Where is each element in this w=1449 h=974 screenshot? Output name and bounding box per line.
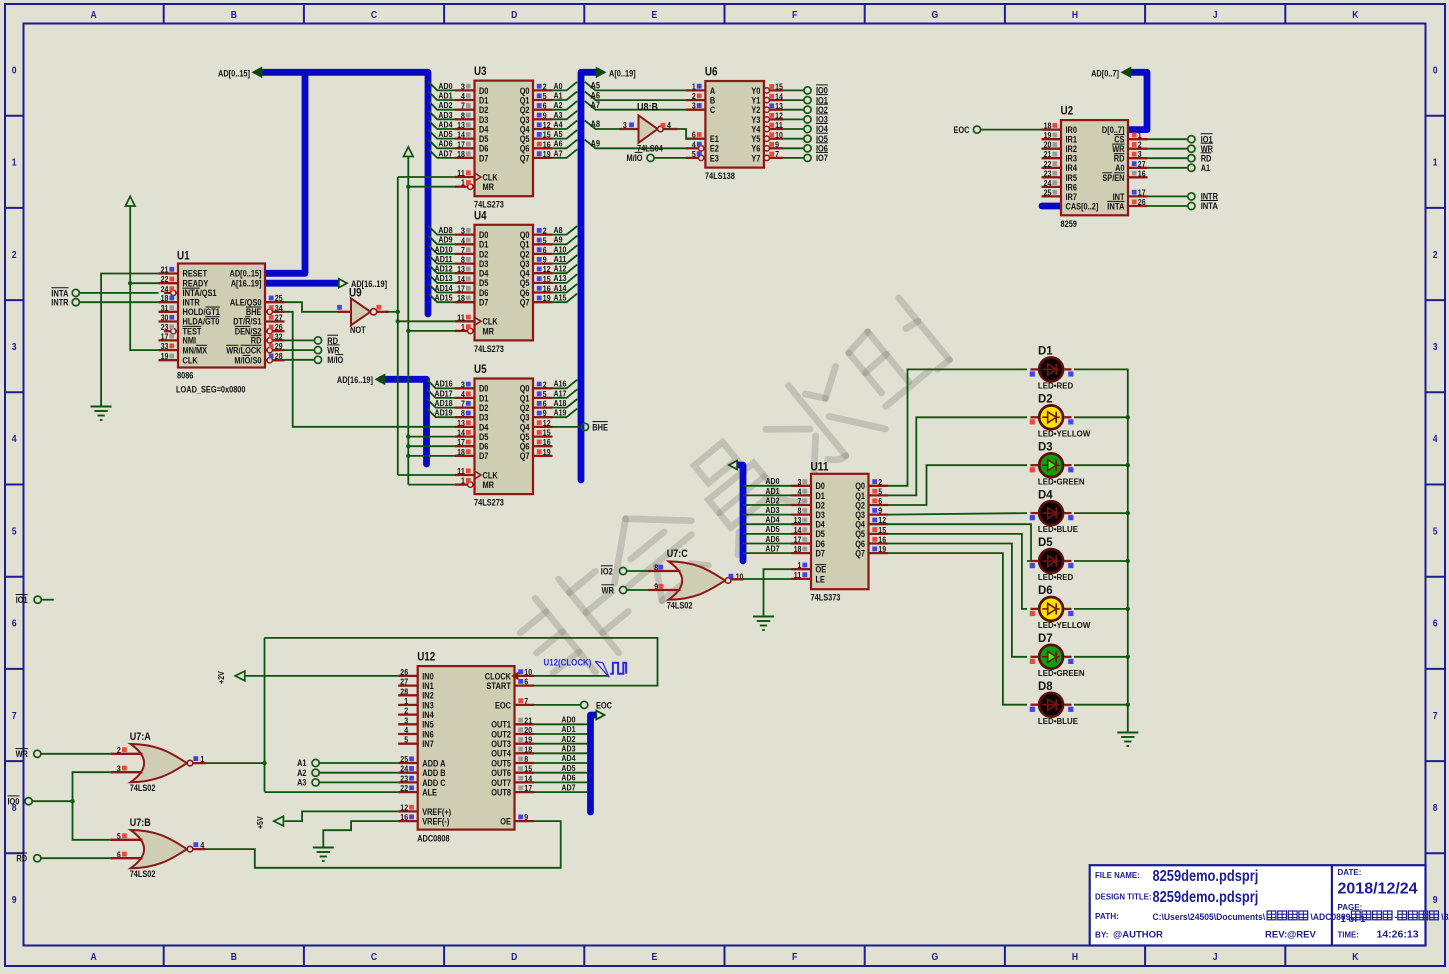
svg-text:D1: D1 — [479, 96, 488, 106]
svg-text:15: 15 — [775, 82, 783, 92]
svg-text:D3: D3 — [479, 259, 488, 269]
svg-text:AD3: AD3 — [438, 110, 452, 120]
svg-text:K: K — [1352, 951, 1359, 963]
svg-text:IO: IO — [243, 355, 251, 365]
svg-text:D7: D7 — [1038, 631, 1053, 645]
svg-text:AD2: AD2 — [561, 734, 575, 744]
svg-text:A14: A14 — [554, 283, 567, 293]
svg-text:RD: RD — [251, 336, 262, 346]
svg-text:14: 14 — [457, 428, 465, 438]
svg-text:PATH:: PATH: — [1095, 911, 1119, 921]
svg-text:13: 13 — [794, 515, 802, 525]
svg-text:D3: D3 — [816, 510, 825, 520]
wire A8 — [585, 119, 639, 129]
svg-text:3: 3 — [1433, 341, 1438, 353]
svg-text:74LS273: 74LS273 — [474, 344, 504, 354]
svg-text:AD11: AD11 — [435, 254, 453, 264]
svg-text:4: 4 — [461, 235, 465, 245]
svg-text:3: 3 — [461, 379, 465, 389]
svg-text:A[0..19]: A[0..19] — [609, 69, 636, 79]
svg-text:BHE: BHE — [246, 307, 262, 317]
svg-text:IN3: IN3 — [422, 700, 434, 710]
svg-text:IR0: IR0 — [1066, 125, 1078, 135]
svg-text:Q1: Q1 — [520, 393, 530, 403]
svg-text:D6: D6 — [479, 442, 488, 452]
svg-text:18: 18 — [457, 293, 465, 303]
wire IO0 net — [70, 772, 110, 840]
svg-text:5: 5 — [12, 525, 17, 537]
svg-text:G: G — [931, 9, 938, 21]
svg-text:4: 4 — [12, 433, 17, 445]
svg-text:IO0: IO0 — [8, 797, 20, 807]
svg-text:Y3: Y3 — [751, 115, 760, 125]
svg-text:IN4: IN4 — [422, 710, 434, 720]
svg-text:DESIGN TITLE:: DESIGN TITLE: — [1095, 892, 1152, 902]
bus U12 AD bus — [591, 711, 605, 812]
svg-text:OUT8: OUT8 — [491, 788, 511, 798]
svg-text:/QS1: /QS1 — [200, 288, 217, 298]
svg-text:MN/: MN/ — [183, 345, 197, 355]
svg-text:4: 4 — [461, 389, 465, 399]
svg-text:D1: D1 — [816, 491, 825, 501]
svg-text:RD: RD — [1201, 153, 1212, 163]
svg-text:2: 2 — [12, 249, 17, 261]
svg-text:GT1: GT1 — [206, 307, 220, 317]
svg-text:AD6: AD6 — [438, 139, 452, 149]
svg-text:LED•BLUE: LED•BLUE — [1038, 716, 1078, 726]
wire LED common — [1074, 369, 1130, 732]
svg-text:CLK: CLK — [483, 317, 499, 327]
svg-text:J: J — [1213, 9, 1218, 21]
svg-text:\82: \82 — [1441, 912, 1449, 923]
svg-text:D4: D4 — [479, 269, 488, 279]
svg-text:74LS273: 74LS273 — [474, 498, 504, 508]
svg-text:23: 23 — [1044, 168, 1052, 178]
wires U11 data inputs — [743, 476, 792, 553]
NOR gate U7:A 74LS02 — [117, 731, 205, 793]
latch U3 74LS273 — [455, 64, 553, 210]
svg-text:Q4: Q4 — [520, 124, 530, 134]
svg-text:1: 1 — [1433, 157, 1438, 169]
svg-text:Q6: Q6 — [855, 539, 865, 549]
wire Q0-D1 — [888, 369, 1027, 485]
svg-text:OUT7: OUT7 — [491, 778, 511, 788]
svg-text:21: 21 — [524, 715, 532, 725]
svg-text:25: 25 — [275, 293, 283, 303]
svg-text:LOCK: LOCK — [241, 345, 262, 355]
svg-text:AD18: AD18 — [435, 398, 453, 408]
svg-text:19: 19 — [524, 735, 532, 745]
svg-text:3: 3 — [692, 101, 696, 111]
terminal INTR (U1) — [51, 298, 158, 308]
svg-text:74LS138: 74LS138 — [705, 171, 735, 181]
svg-text:D2: D2 — [1038, 392, 1053, 406]
bus A[0..19] — [581, 67, 636, 480]
svg-text:D5: D5 — [479, 432, 488, 442]
svg-text:M/IO: M/IO — [627, 153, 643, 163]
svg-text:1: 1 — [798, 560, 802, 570]
svg-text:Q4: Q4 — [520, 269, 530, 279]
svg-text:RD: RD — [327, 336, 338, 346]
svg-text:20: 20 — [524, 725, 532, 735]
svg-text:INTR: INTR — [183, 297, 201, 307]
svg-text:10: 10 — [775, 130, 783, 140]
svg-text:16: 16 — [543, 139, 551, 149]
svg-text:13: 13 — [775, 101, 783, 111]
svg-text:EN: EN — [1114, 173, 1124, 183]
svg-text:D0: D0 — [479, 230, 488, 240]
svg-text:2: 2 — [543, 81, 547, 91]
svg-text:Q2: Q2 — [520, 105, 530, 115]
CPU U1 8086 — [159, 249, 285, 395]
svg-text:D2: D2 — [479, 105, 488, 115]
svg-text:OUT3: OUT3 — [491, 739, 511, 749]
wire RESET to gnd — [101, 274, 158, 407]
svg-text:MR: MR — [483, 326, 495, 336]
svg-text:READY: READY — [183, 278, 209, 288]
svg-text:B: B — [710, 96, 716, 106]
svg-text:Q3: Q3 — [520, 413, 530, 423]
svg-text:AD1: AD1 — [765, 486, 779, 496]
svg-text:A17: A17 — [554, 388, 567, 398]
svg-text:CLK: CLK — [483, 172, 499, 182]
svg-text:IN5: IN5 — [422, 720, 434, 730]
svg-text:D0: D0 — [479, 86, 488, 96]
svg-text:A2: A2 — [297, 768, 306, 778]
svg-text:U7:B: U7:B — [130, 817, 151, 829]
svg-text:U3: U3 — [474, 64, 487, 78]
svg-text:19: 19 — [543, 149, 551, 159]
svg-text:5: 5 — [692, 149, 696, 159]
svg-text:EOC: EOC — [495, 700, 511, 710]
svg-text:D0: D0 — [479, 384, 488, 394]
svg-text:8: 8 — [461, 255, 465, 265]
svg-text:AD0: AD0 — [438, 81, 452, 91]
svg-text:74LS02: 74LS02 — [130, 869, 156, 879]
svg-text:@AUTHOR: @AUTHOR — [1113, 929, 1163, 940]
svg-text:4: 4 — [461, 91, 465, 101]
svg-text:A: A — [710, 86, 716, 96]
wire U11 OE to ground — [764, 569, 792, 616]
svg-text:IR6: IR6 — [1066, 182, 1078, 192]
svg-text:B: B — [231, 9, 238, 21]
svg-text:7: 7 — [12, 710, 17, 722]
svg-text:11: 11 — [794, 570, 802, 580]
wire Q1-D2 — [888, 417, 1027, 495]
svg-text:12: 12 — [543, 120, 551, 130]
svg-text:21: 21 — [1044, 149, 1052, 159]
svg-text:8: 8 — [1433, 802, 1438, 814]
svg-text:20: 20 — [1044, 140, 1052, 150]
svg-text:LE: LE — [816, 574, 825, 584]
svg-text:INTA: INTA — [1201, 201, 1219, 211]
svg-text:D4: D4 — [479, 422, 488, 432]
svg-text:A7: A7 — [554, 148, 563, 158]
svg-text:IO1: IO1 — [16, 595, 28, 605]
svg-text:6: 6 — [543, 101, 547, 111]
svg-text:VREF(-): VREF(-) — [422, 817, 449, 827]
svg-text:AD17: AD17 — [435, 388, 453, 398]
svg-text:D2: D2 — [479, 249, 488, 259]
svg-text:A18: A18 — [554, 398, 567, 408]
svg-text:AD2: AD2 — [765, 495, 779, 505]
wires U3 data — [429, 81, 578, 159]
terminal EOC (U12) — [534, 700, 612, 710]
svg-text:30: 30 — [161, 313, 169, 323]
power +2V — [216, 671, 245, 684]
svg-text:Y6: Y6 — [751, 144, 760, 154]
latch U11 74LS373 — [792, 459, 889, 602]
svg-text:A2: A2 — [554, 100, 563, 110]
svg-text:3: 3 — [461, 81, 465, 91]
title block — [1090, 865, 1426, 945]
wire Q2-D3 — [888, 465, 1027, 505]
svg-text:U12: U12 — [417, 650, 435, 664]
svg-text:6: 6 — [543, 399, 547, 409]
svg-text:6: 6 — [692, 130, 696, 140]
svg-text:E: E — [652, 951, 658, 963]
svg-text:DT/: DT/ — [233, 317, 245, 327]
svg-text:D5: D5 — [816, 529, 825, 539]
NOR gate U7:B 74LS02 — [117, 817, 205, 879]
svg-text:Q4: Q4 — [855, 520, 865, 530]
svg-text:EOC: EOC — [954, 125, 970, 135]
svg-text:A1: A1 — [1201, 163, 1210, 173]
wire A9 — [585, 139, 688, 149]
LED D3 GREEN — [1030, 439, 1085, 486]
svg-text:WR: WR — [16, 749, 29, 759]
svg-text:D4: D4 — [479, 124, 488, 134]
svg-text:A8: A8 — [554, 225, 563, 235]
svg-text:LED•RED: LED•RED — [1038, 381, 1073, 391]
svg-text:AD8: AD8 — [438, 225, 452, 235]
svg-text:F: F — [792, 951, 798, 963]
svg-text:IO7: IO7 — [816, 153, 828, 163]
svg-text:A15: A15 — [554, 293, 567, 303]
terminal WR (U7:A) — [16, 749, 111, 760]
svg-text:9: 9 — [1433, 894, 1438, 906]
svg-text:11: 11 — [457, 312, 465, 322]
svg-text:D3: D3 — [1038, 439, 1053, 453]
svg-text:D: D — [511, 951, 518, 963]
svg-text:9: 9 — [543, 408, 547, 418]
svg-text:LED•GREEN: LED•GREEN — [1038, 476, 1085, 486]
svg-text:K: K — [1352, 9, 1359, 21]
svg-text:A0: A0 — [1115, 163, 1124, 173]
svg-text:WR: WR — [602, 585, 615, 595]
svg-text:D0: D0 — [816, 481, 825, 491]
svg-text:LED•YELLOW: LED•YELLOW — [1038, 428, 1091, 438]
svg-text:10: 10 — [524, 667, 532, 677]
svg-text:C: C — [371, 951, 378, 963]
svg-text:24: 24 — [400, 764, 408, 774]
svg-text:PAGE:: PAGE: — [1338, 902, 1363, 912]
svg-text:11: 11 — [457, 466, 465, 476]
svg-text:16: 16 — [1138, 168, 1146, 178]
svg-text:A12: A12 — [554, 264, 567, 274]
svg-text:U7:A: U7:A — [130, 731, 151, 743]
svg-text:Q1: Q1 — [520, 96, 530, 106]
svg-text:MR: MR — [483, 182, 495, 192]
svg-text:D6: D6 — [479, 144, 488, 154]
terminals A1 A2 A3 — [297, 758, 398, 787]
svg-text:CS: CS — [1114, 135, 1124, 145]
svg-text:AD5: AD5 — [438, 129, 452, 139]
svg-text:6: 6 — [524, 677, 528, 687]
svg-text:9: 9 — [524, 812, 528, 822]
svg-text:Y0: Y0 — [751, 86, 760, 96]
svg-text:1: 1 — [461, 476, 465, 486]
svg-text:19: 19 — [161, 351, 169, 361]
svg-text:9: 9 — [543, 255, 547, 265]
wire Q4-D5 — [888, 524, 1031, 561]
svg-text:2: 2 — [543, 379, 547, 389]
svg-text:\ADC0809: \ADC0809 — [1311, 912, 1351, 923]
terminal INTA (U1) — [51, 288, 158, 299]
svg-text:U4: U4 — [474, 208, 487, 222]
svg-text:AD7: AD7 — [438, 148, 452, 158]
svg-text:BHE: BHE — [592, 422, 608, 432]
svg-text:CLOCK: CLOCK — [485, 671, 512, 681]
terminal EOC (U2) — [954, 125, 1042, 135]
svg-text:CLK: CLK — [483, 470, 499, 480]
svg-text:IN1: IN1 — [422, 681, 434, 691]
terminal RD (U1) — [285, 335, 339, 346]
svg-text:IR7: IR7 — [1066, 192, 1078, 202]
svg-text:LED•RED: LED•RED — [1038, 572, 1073, 582]
svg-text:AD15: AD15 — [435, 293, 453, 303]
svg-text:16: 16 — [400, 812, 408, 822]
svg-text:IO2: IO2 — [601, 566, 613, 576]
svg-text:5: 5 — [543, 91, 547, 101]
svg-text:D2: D2 — [816, 500, 825, 510]
svg-text:A4: A4 — [554, 119, 563, 129]
svg-text:H: H — [1072, 9, 1078, 21]
ground (LED chain) — [1117, 733, 1138, 747]
svg-text:5: 5 — [543, 235, 547, 245]
svg-text:3: 3 — [1138, 149, 1142, 159]
wire U7:C out to U11 LE — [731, 578, 791, 581]
LED D4 BLUE — [1030, 487, 1079, 534]
svg-text:1: 1 — [692, 81, 696, 91]
svg-text:13: 13 — [457, 418, 465, 428]
svg-text:13: 13 — [457, 264, 465, 274]
svg-text:ADD C: ADD C — [422, 778, 446, 788]
svg-text:AD[16..19]: AD[16..19] — [337, 375, 373, 385]
svg-text:AD1: AD1 — [561, 724, 575, 734]
svg-text:AD3: AD3 — [765, 505, 779, 515]
svg-text:ADC0808: ADC0808 — [417, 833, 449, 843]
svg-text:A: A — [91, 9, 98, 21]
wire MR net vertical — [404, 147, 456, 485]
svg-text:74LS373: 74LS373 — [811, 593, 841, 603]
LED D7 GREEN — [1030, 631, 1085, 678]
svg-text:21: 21 — [161, 265, 169, 275]
wire VREF+ +5V — [285, 811, 399, 821]
svg-text:EOC: EOC — [596, 700, 612, 710]
latch U5 74LS273 — [455, 362, 553, 508]
svg-text:IR3: IR3 — [1066, 154, 1078, 164]
svg-text:+2V: +2V — [216, 671, 226, 684]
svg-text:27: 27 — [1138, 159, 1146, 169]
svg-text:14: 14 — [794, 525, 802, 535]
svg-text:MX: MX — [196, 345, 207, 355]
terminal WR (U1) — [285, 345, 341, 356]
svg-text:Q2: Q2 — [520, 403, 530, 413]
svg-text:9: 9 — [12, 894, 17, 906]
wire ALE to U12 — [265, 791, 399, 793]
svg-text:MR: MR — [483, 480, 495, 490]
svg-text:Q7: Q7 — [855, 549, 865, 559]
svg-text:Q2: Q2 — [520, 249, 530, 259]
svg-text:OUT1: OUT1 — [491, 720, 511, 730]
svg-text:12: 12 — [543, 418, 551, 428]
svg-text:Q1: Q1 — [520, 240, 530, 250]
svg-text:G: G — [931, 951, 938, 963]
svg-text:START: START — [486, 681, 511, 691]
svg-text:U1: U1 — [177, 249, 190, 263]
svg-text:A1: A1 — [554, 91, 563, 101]
svg-text:8: 8 — [524, 754, 528, 764]
svg-text:D4: D4 — [816, 520, 825, 530]
terminal IO0 — [8, 796, 73, 807]
svg-text:5: 5 — [1433, 525, 1438, 537]
svg-text:D7: D7 — [479, 451, 488, 461]
svg-text:6: 6 — [1433, 618, 1438, 630]
svg-text:U8:B: U8:B — [637, 101, 658, 113]
svg-text:OUT4: OUT4 — [491, 749, 511, 759]
wires U2 terminals — [1148, 134, 1219, 212]
svg-text:REV:: REV: — [1265, 929, 1287, 940]
svg-text:AD0: AD0 — [561, 715, 575, 725]
svg-text:2: 2 — [404, 706, 408, 716]
svg-text:15: 15 — [878, 525, 886, 535]
svg-text:AD5: AD5 — [561, 763, 575, 773]
svg-text:14: 14 — [457, 130, 465, 140]
svg-text:FILE NAME:: FILE NAME: — [1095, 870, 1140, 880]
svg-text:ADD B: ADD B — [422, 768, 446, 778]
svg-text:M/IO: M/IO — [327, 355, 343, 365]
svg-text:Q6: Q6 — [520, 144, 530, 154]
wires U12 OUT to bus — [534, 715, 587, 793]
ground (VREF-) — [313, 848, 334, 862]
svg-text:Q6: Q6 — [520, 288, 530, 298]
svg-text:A11: A11 — [554, 254, 567, 264]
svg-text:2018/12/24: 2018/12/24 — [1338, 880, 1418, 897]
svg-text:AD10: AD10 — [435, 244, 453, 254]
svg-text:/S1: /S1 — [250, 317, 261, 327]
svg-text:ALE: ALE — [422, 788, 437, 798]
svg-text:Q1: Q1 — [855, 491, 865, 501]
inverter U9 NOT — [337, 285, 381, 335]
svg-text:D4: D4 — [1038, 487, 1053, 501]
svg-text:27: 27 — [400, 677, 408, 687]
wire VREF- gnd — [323, 821, 398, 847]
svg-text:12: 12 — [878, 515, 886, 525]
wire Q6-D7 — [888, 544, 1027, 657]
svg-text:A[16..19]: A[16..19] — [231, 278, 262, 288]
svg-text:1: 1 — [404, 696, 408, 706]
svg-text:22: 22 — [161, 274, 169, 284]
wires U6 outputs IO0-IO7 — [783, 85, 828, 163]
svg-text:17: 17 — [524, 783, 532, 793]
svg-text:1: 1 — [461, 178, 465, 188]
svg-text:SP: SP — [1102, 173, 1112, 183]
svg-text:E3: E3 — [710, 153, 719, 163]
svg-text:3: 3 — [12, 341, 17, 353]
wire A5 — [585, 81, 706, 91]
svg-text:14: 14 — [457, 274, 465, 284]
